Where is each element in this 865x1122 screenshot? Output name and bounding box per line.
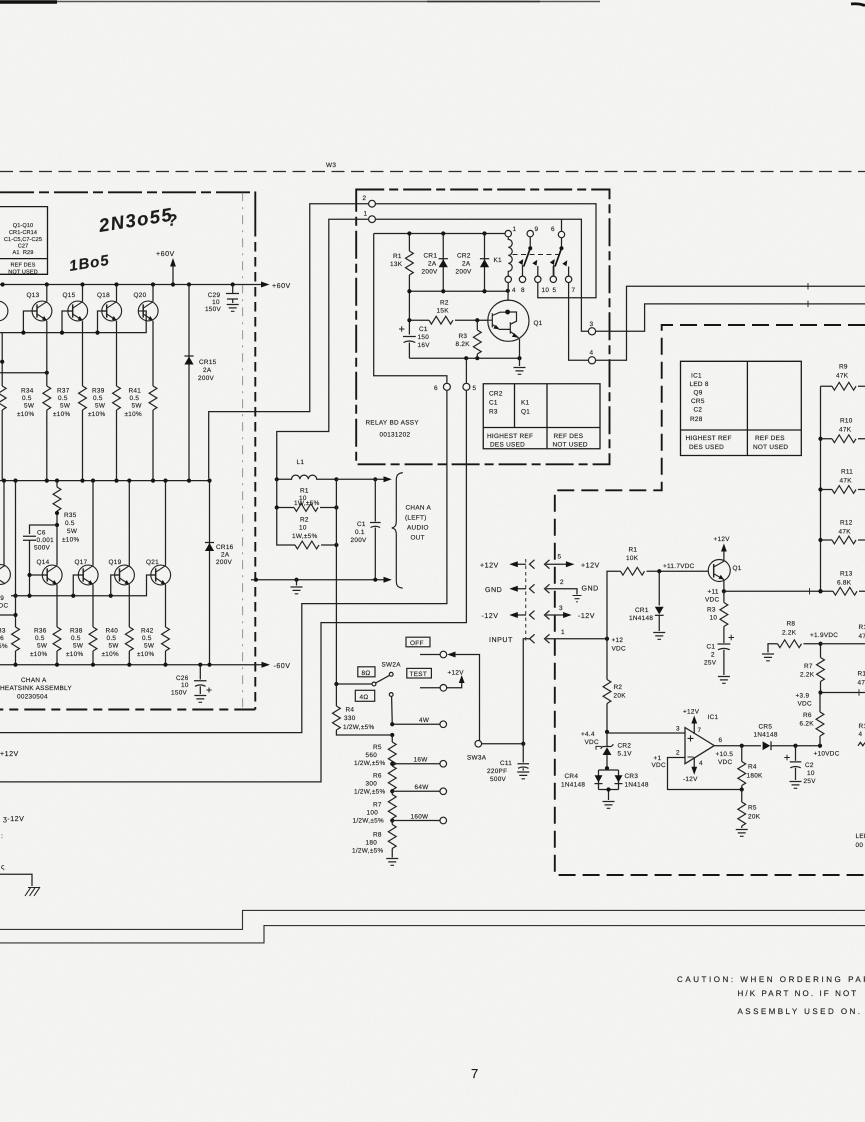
svg-text:GND: GND: [582, 585, 599, 593]
svg-text:500V: 500V: [34, 545, 51, 552]
GND mini ground: [573, 596, 582, 602]
svg-text:0.5: 0.5: [35, 635, 45, 642]
svg-text:+12: +12: [612, 637, 624, 644]
svg-text:1/2W,±5%: 1/2W,±5%: [354, 760, 385, 767]
svg-text:1/2W,±5%: 1/2W,±5%: [353, 818, 384, 825]
svg-text:150: 150: [418, 334, 430, 341]
page top edge corner mark right: [851, 4, 865, 6]
Q1 emitter wire: [723, 580, 725, 592]
svg-text:R6: R6: [803, 712, 812, 719]
svg-text:47K: 47K: [839, 529, 852, 536]
Q18 base wire: [98, 311, 107, 333]
svg-text:R3: R3: [459, 333, 468, 340]
svg-text:2A: 2A: [428, 261, 437, 268]
svg-text:R10: R10: [840, 418, 853, 425]
svg-text:+1.9VDC: +1.9VDC: [810, 632, 838, 639]
Q17 collector wire: [92, 481, 94, 566]
svg-text:2: 2: [363, 195, 367, 202]
resistor R4 330: [335, 684, 337, 706]
svg-text:C27: C27: [18, 244, 29, 250]
R3 label: [707, 607, 717, 622]
wire conn1/contact6 to pin3 right run: [375, 219, 588, 331]
row +12V wire right with arrow: [546, 563, 567, 565]
svg-text:GND: GND: [485, 586, 502, 594]
svg-text::: :: [1, 833, 3, 840]
contact arrow pin7: [568, 267, 570, 277]
Q19 collector wire: [128, 481, 130, 566]
svg-text:0.5: 0.5: [93, 395, 103, 402]
160W terminal circle: [440, 817, 447, 824]
R35 label: [62, 512, 80, 544]
return wire dots: [254, 578, 258, 582]
resistor R6 300: [388, 766, 396, 790]
diode CR15: [188, 285, 190, 481]
+12 VDC label: [612, 637, 626, 653]
C26 plus sign: [207, 688, 212, 693]
Q13 collector wire: [46, 285, 48, 302]
row +12V chevrons: [530, 560, 550, 569]
row GND wire right to ground: [546, 589, 577, 595]
diode CR16: [209, 481, 211, 665]
contact pin circle 7: [565, 276, 571, 282]
svg-text:DES USED: DES USED: [490, 442, 525, 449]
svg-text:REF DES: REF DES: [755, 435, 785, 442]
svg-text:500V: 500V: [490, 776, 507, 783]
svg-text:150V: 150V: [171, 690, 188, 697]
pin 7 arrow up: [693, 720, 695, 735]
contact pin circle 8: [519, 276, 525, 282]
resistor R35: [56, 481, 58, 487]
svg-text:200V: 200V: [422, 269, 439, 276]
svg-text:1N4148: 1N4148: [629, 615, 653, 622]
svg-text:2: 2: [676, 750, 680, 757]
svg-text:R1: R1: [629, 547, 638, 554]
op-amp plus minus: [688, 735, 694, 757]
pin 2 feedback wire: [668, 758, 742, 790]
resistor R37: [79, 386, 87, 410]
R41 label: [125, 388, 143, 419]
return ground: [296, 580, 298, 586]
svg-text:2A: 2A: [203, 367, 212, 374]
svg-text:10: 10: [181, 682, 189, 689]
svg-text:5W: 5W: [95, 403, 106, 410]
wire conn2 to relay contact 10: [375, 204, 596, 298]
svg-text:47K: 47K: [840, 478, 853, 485]
svg-text:K1: K1: [521, 400, 530, 407]
svg-text:ʒ-12V: ʒ-12V: [3, 815, 24, 823]
svg-text:C1: C1: [357, 521, 366, 528]
svg-text:10: 10: [542, 287, 550, 294]
R2 label: [437, 300, 450, 315]
TEST contact wire: [420, 687, 440, 689]
Q19 base wire: [111, 575, 120, 596]
svg-text:47K: 47K: [839, 427, 852, 434]
capacitor C1 150 16V: [403, 337, 416, 359]
svg-text:+11.7VDC: +11.7VDC: [663, 563, 695, 570]
heatsink assembly dash-dot border: top: [0, 191, 255, 193]
pin 9 pivot wire: [529, 237, 531, 248]
64W terminal circle: [440, 788, 447, 795]
svg-text:L1: L1: [297, 459, 305, 466]
svg-text:8.2K: 8.2K: [456, 341, 471, 348]
svg-text:Q1-Q10: Q1-Q10: [13, 223, 34, 229]
svg-text:Q1: Q1: [733, 565, 742, 572]
svg-text:CR2: CR2: [618, 743, 632, 750]
CHAN A heatsink assembly label: [0, 677, 72, 701]
diode CR1 (relay): [442, 234, 444, 292]
svg-text:180K: 180K: [747, 773, 764, 780]
partial zigzag at right edge: [858, 742, 865, 745]
svg-text:REF DES: REF DES: [11, 263, 36, 269]
svg-text:R42: R42: [141, 628, 154, 635]
contact 6 riser: [561, 219, 563, 231]
svg-text:ASSEMBLY USED ON.: ASSEMBLY USED ON.: [738, 1007, 863, 1016]
R4 label: [747, 764, 764, 780]
+11VDC line: [724, 590, 832, 592]
svg-text:IC1: IC1: [691, 373, 702, 380]
TEST +12V feed: [447, 679, 462, 688]
svg-text:4: 4: [699, 760, 703, 767]
contact arrow pin10: [537, 266, 539, 276]
svg-text:1N4148: 1N4148: [561, 782, 585, 789]
svg-text:00131202: 00131202: [380, 432, 411, 439]
cable W3 dashed boundary line: [0, 171, 865, 173]
svg-text:180: 180: [366, 840, 378, 847]
Q1 emitter arrow: [719, 575, 724, 580]
svg-text:330: 330: [344, 715, 356, 722]
svg-text:8: 8: [521, 287, 525, 294]
transistor Q19: [115, 565, 135, 585]
svg-text:R28: R28: [690, 416, 703, 423]
svg-text:3: 3: [559, 605, 563, 612]
op-amp IC1: [685, 728, 714, 764]
svg-text:CR16: CR16: [216, 544, 234, 551]
audio out brace: [392, 473, 403, 589]
svg-text:HIGHEST REF: HIGHEST REF: [487, 433, 533, 440]
svg-text:64W: 64W: [415, 784, 430, 791]
contact pin circle 6: [558, 231, 564, 237]
lower base rail: [11, 575, 156, 596]
svg-text:R8: R8: [787, 621, 796, 628]
-59 VDC label: [0, 595, 8, 610]
4W terminal circle: [440, 721, 447, 728]
svg-text:1: 1: [513, 226, 517, 233]
svg-text:Q18: Q18: [97, 292, 110, 299]
svg-text:CAUTION: WHEN ORDERING PAR: CAUTION: WHEN ORDERING PAR: [677, 975, 865, 984]
mechanical link dashes: [513, 254, 560, 256]
CHAN A audio out label: [405, 505, 432, 542]
Q1 collector dot: [505, 310, 510, 315]
speaker tap vertical: [335, 479, 337, 684]
SW2A arm: [376, 675, 390, 683]
svg-text:3: 3: [676, 726, 680, 733]
C1 plus: [399, 326, 405, 332]
-60V arrowhead: [262, 662, 271, 668]
svg-text:16W: 16W: [414, 757, 429, 764]
svg-text:VDC: VDC: [652, 762, 666, 769]
svg-text:R1: R1: [859, 624, 865, 631]
page top edge dark segment mid: [427, 1, 540, 3]
heatsink assembly border: bottom: [0, 709, 255, 711]
svg-text:R2: R2: [440, 300, 449, 307]
svg-text:VDC: VDC: [705, 597, 719, 604]
C1 label: [704, 644, 717, 667]
resistor R5 20K: [741, 790, 743, 803]
OFF contact circle: [440, 651, 447, 658]
R8 label: [782, 621, 797, 637]
svg-text:CR15: CR15: [199, 359, 217, 366]
resistor R40: [125, 627, 133, 651]
R37 label: [53, 388, 71, 419]
pin 3 wire out: [596, 304, 865, 331]
svg-text:0.5: 0.5: [71, 635, 81, 642]
ref list text: [4, 223, 42, 276]
svg-text:8Ω: 8Ω: [362, 670, 371, 677]
partial R16 at edge: [859, 723, 865, 738]
R9 label: [836, 364, 849, 380]
svg-text:2: 2: [560, 579, 564, 586]
svg-text:CR5: CR5: [691, 398, 705, 405]
svg-text:CR2: CR2: [489, 391, 503, 398]
pin 4 arrow down: [693, 757, 695, 771]
+4.4 node: [605, 730, 609, 734]
svg-text:Q13: Q13: [27, 292, 40, 299]
LED table refs: [690, 373, 709, 424]
svg-text:CR4: CR4: [565, 773, 579, 780]
svg-text:6.8K: 6.8K: [837, 580, 852, 587]
stub wire at left edge: [0, 614, 16, 616]
svg-text:C1-C5,C7-C25: C1-C5,C7-C25: [4, 237, 42, 243]
Q15 emitter wire: [82, 321, 84, 386]
transistor Q13: [32, 301, 52, 321]
clamp ground: [606, 787, 610, 791]
R42 label: [137, 628, 155, 659]
bottom pin circle 5: [463, 383, 470, 390]
pin 5 ground riser: [552, 266, 554, 276]
svg-text:4W: 4W: [419, 717, 430, 724]
svg-text:VDC: VDC: [612, 646, 626, 653]
svg-text:20K: 20K: [614, 693, 627, 700]
svg-text:Q15: Q15: [63, 292, 76, 299]
resistor R1 13K: [408, 234, 410, 252]
svg-text:+4.4: +4.4: [581, 731, 595, 738]
capacitor C1 0.1 200V: [370, 479, 381, 579]
svg-text:2.2K: 2.2K: [800, 672, 815, 679]
svg-text:CR5: CR5: [759, 724, 773, 731]
chassis ground symbol: [25, 887, 40, 896]
coil pin circle 1: [505, 230, 511, 236]
page top edge line: [0, 1, 600, 3]
svg-text:200V: 200V: [456, 269, 473, 276]
transistor Q17: [78, 565, 98, 585]
R6 label: [800, 712, 815, 728]
R36 label: [30, 628, 48, 659]
bottom bus line A (stepped): [0, 910, 865, 929]
lower node wire: [409, 290, 507, 292]
Q15 base wire: [62, 311, 73, 333]
connector circle 2: [369, 200, 376, 207]
diode CR2 (relay): [484, 234, 486, 292]
W2 connector dashed line: [525, 559, 527, 643]
R35 node dots: [55, 511, 59, 515]
R5 label: [748, 805, 761, 821]
svg-text:5W: 5W: [67, 528, 78, 535]
svg-text:R4: R4: [346, 707, 355, 714]
resistor R2 10ohm: [277, 508, 295, 546]
svg-text:NOT USED: NOT USED: [753, 444, 788, 451]
svg-text:R38: R38: [70, 628, 83, 635]
pin 4 wire out: [596, 286, 865, 360]
svg-text:Q20: Q20: [134, 292, 147, 299]
svg-text:R1: R1: [858, 671, 865, 678]
svg-text:R4: R4: [748, 764, 757, 771]
svg-text:±10%: ±10%: [30, 651, 48, 658]
svg-text:10K: 10K: [626, 555, 639, 562]
Q1 emitter to ground: [519, 339, 521, 366]
resistor R1 10K: [621, 567, 645, 575]
zener CR2 5.1V: [606, 732, 608, 747]
C29 label: [205, 292, 222, 313]
C1 label: [418, 326, 431, 349]
bus P wire (relay pin6 to left edge): [0, 390, 447, 732]
svg-text:150V: 150V: [205, 306, 222, 313]
TEST contact circle: [440, 685, 447, 692]
Q1 emitter arrows: [493, 325, 499, 330]
crossover wire to Q13 emitter: [0, 372, 47, 374]
svg-text:10: 10: [212, 299, 220, 306]
svg-text:Q19: Q19: [109, 559, 122, 566]
svg-text:Q9: Q9: [694, 390, 703, 397]
svg-text:R37: R37: [57, 388, 70, 395]
svg-text:7: 7: [698, 727, 702, 734]
svg-text:+12V: +12V: [480, 562, 499, 570]
svg-text:1N4148: 1N4148: [754, 732, 778, 739]
svg-text:0.5: 0.5: [58, 395, 68, 402]
svg-text:00230504: 00230504: [17, 694, 48, 701]
svg-text:R13: R13: [840, 571, 853, 578]
R8 ground: [386, 859, 398, 866]
base rail dots: [21, 331, 25, 335]
SW3A circle: [475, 740, 482, 747]
+60V up arrow: [172, 266, 174, 285]
inner light dash-dot boundary line: [242, 192, 244, 709]
wire conn2 to speaker node: [209, 204, 369, 479]
TEST box: [407, 668, 432, 678]
pin 6 output wire: [714, 745, 761, 747]
resistor R9 47K: [821, 385, 833, 387]
-60V rail: [0, 664, 263, 666]
mid rail dots: [2, 479, 6, 483]
svg-text:Q1: Q1: [534, 320, 543, 327]
svg-text:1/2W,±5%: 1/2W,±5%: [354, 789, 385, 796]
svg-text:10: 10: [710, 615, 718, 622]
row -12V chevrons: [530, 611, 550, 620]
CR2 hook mark: [596, 746, 602, 749]
+3.9 node: [818, 690, 822, 694]
svg-text:SW3A: SW3A: [467, 755, 487, 762]
table captions: [487, 433, 588, 449]
upper base rail: [0, 311, 146, 333]
R2 label: [292, 517, 318, 541]
transistor Q21: [151, 565, 171, 585]
svg-text:CR3: CR3: [625, 773, 639, 780]
row INPUT wire right: [546, 638, 607, 640]
svg-text:HIGHEST REF: HIGHEST REF: [686, 435, 732, 442]
SW2A throw circle 8ohm: [389, 672, 393, 676]
svg-text:±10%: ±10%: [125, 411, 143, 418]
audio out top wire: [336, 478, 384, 480]
resistor R4 180K: [741, 746, 743, 762]
partial R14 at edge: [859, 624, 865, 640]
+60V right arrowhead: [261, 282, 270, 288]
svg-text:VDC: VDC: [798, 701, 812, 708]
svg-text:C1: C1: [419, 326, 428, 333]
bus N wire (relay pin5 to left edge): [0, 390, 466, 782]
svg-text:VDC: VDC: [585, 739, 599, 746]
R5 label: [354, 744, 385, 767]
svg-text:R1: R1: [300, 488, 309, 495]
svg-text:5W: 5W: [24, 403, 35, 410]
output node dot: [740, 744, 744, 748]
svg-text:220PF: 220PF: [487, 768, 507, 775]
resistor R8 2.2K: [804, 643, 821, 645]
svg-text:W3: W3: [326, 162, 336, 169]
relay top rail: [374, 233, 505, 235]
svg-text:4Ω: 4Ω: [360, 694, 369, 701]
relay coil K1: [508, 237, 512, 276]
svg-text:TEST: TEST: [410, 671, 428, 678]
svg-text:-59: -59: [0, 595, 4, 602]
mid output rail: [0, 480, 210, 482]
R3 label: [456, 333, 471, 348]
svg-text:R2: R2: [300, 517, 309, 524]
svg-text:-12V: -12V: [683, 776, 698, 783]
resistor R41: [149, 386, 157, 410]
LED table captions: [686, 435, 789, 451]
bottom pin circle 6: [443, 383, 450, 390]
svg-text:Q21: Q21: [146, 559, 159, 566]
Q20 emitter wire: [152, 321, 154, 386]
row +12V left arrow: [517, 563, 526, 565]
resistor R10 47K: [821, 438, 833, 440]
svg-text:47: 47: [859, 633, 865, 640]
svg-text:C2: C2: [805, 762, 814, 769]
svg-text:5W: 5W: [144, 643, 155, 650]
svg-text:+12V: +12V: [683, 709, 700, 716]
+3.9 VDC label: [796, 693, 812, 708]
row -12V wire right with arrow: [546, 614, 564, 616]
svg-text:5: 5: [473, 385, 477, 392]
svg-text:200V: 200V: [351, 537, 368, 544]
R40 label: [102, 628, 120, 659]
svg-text:CHAN A: CHAN A: [21, 677, 47, 684]
svg-text:33: 33: [0, 628, 6, 635]
R6 label: [354, 773, 385, 796]
svg-text:R6: R6: [373, 773, 382, 780]
svg-text:4: 4: [512, 287, 516, 294]
wire conn1 to pin 3: [277, 219, 369, 477]
transistor Q18: [102, 301, 122, 321]
Q18 emitter wire: [116, 321, 118, 386]
svg-text:R36: R36: [34, 628, 47, 635]
svg-text:R9: R9: [839, 364, 848, 371]
svg-text:+11: +11: [708, 589, 719, 596]
svg-text:R39: R39: [92, 388, 105, 395]
svg-text:200V: 200V: [216, 559, 233, 566]
svg-text:6: 6: [434, 385, 438, 392]
svg-text:RELAY BD ASSY: RELAY BD ASSY: [366, 420, 420, 427]
svg-text:±10%: ±10%: [137, 651, 155, 658]
